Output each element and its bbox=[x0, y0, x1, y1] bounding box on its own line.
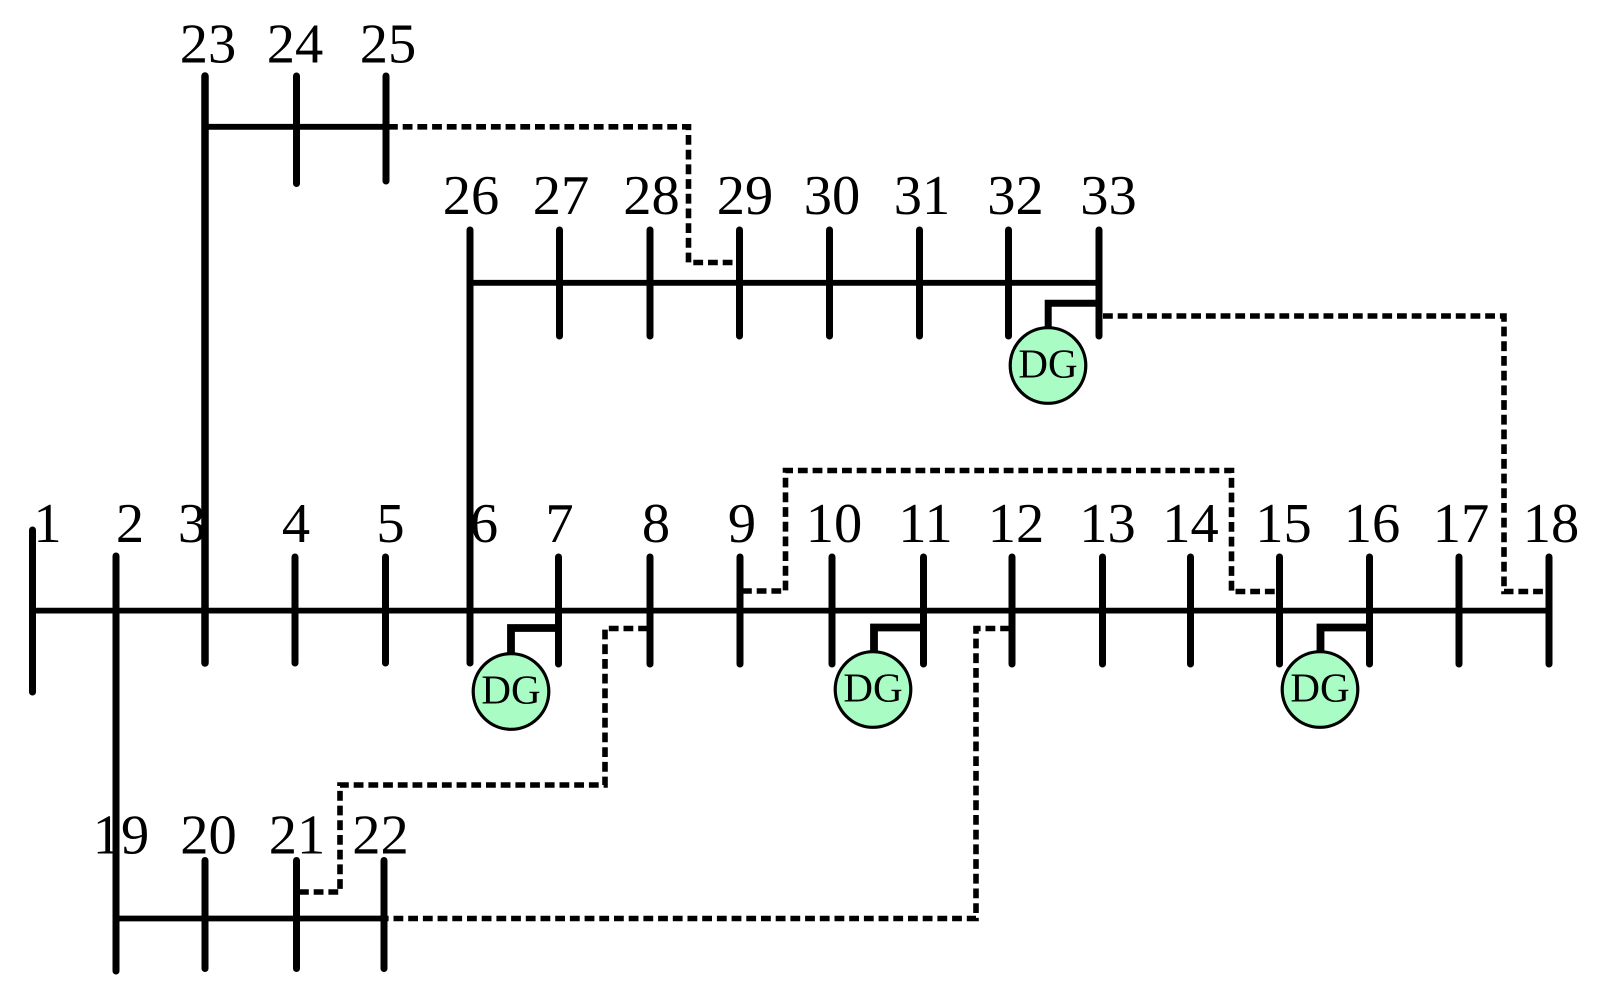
svg-text:19: 19 bbox=[93, 805, 150, 867]
svg-text:23: 23 bbox=[180, 14, 237, 76]
node bus 3 with riser to bus 23 branch bbox=[201, 76, 209, 663]
node bus 31 bbox=[916, 230, 923, 336]
node bus 32 bbox=[1005, 230, 1012, 336]
node bus 22 bbox=[381, 861, 388, 969]
node bus 33 bbox=[1096, 230, 1103, 336]
node bus 10 bbox=[829, 557, 836, 664]
node bus 25 bbox=[383, 76, 390, 181]
svg-text:16: 16 bbox=[1344, 493, 1401, 555]
svg-text:DG: DG bbox=[481, 667, 540, 713]
svg-text:12: 12 bbox=[988, 493, 1045, 555]
node bus 29 bbox=[736, 230, 743, 336]
node bus 18 bbox=[1546, 557, 1553, 664]
wire tie switch 8-21 (dashed) bbox=[299, 629, 648, 893]
node bus 17 bbox=[1456, 557, 1463, 664]
wire tie switch 9-15 (dashed) bbox=[742, 471, 1277, 592]
svg-text:14: 14 bbox=[1162, 493, 1219, 555]
svg-text:5: 5 bbox=[376, 493, 404, 555]
DG generator G4 at bus 32-33 bbox=[1010, 328, 1086, 404]
svg-text:6: 6 bbox=[470, 493, 498, 555]
svg-text:2: 2 bbox=[116, 493, 144, 555]
wire DG3 connector to bus 16 bbox=[1321, 628, 1370, 652]
node bus 28 bbox=[647, 230, 654, 336]
svg-text:31: 31 bbox=[894, 165, 951, 227]
wire DG4 connector to bus 33 bbox=[1048, 303, 1100, 328]
wire main feeder bus 1-18 bbox=[33, 608, 1550, 614]
svg-text:28: 28 bbox=[623, 165, 680, 227]
node bus 30 bbox=[826, 230, 833, 336]
wire tie switch 33-18 (dashed) bbox=[1103, 316, 1547, 592]
svg-text:27: 27 bbox=[533, 165, 590, 227]
svg-text:32: 32 bbox=[987, 165, 1044, 227]
node bus 12 bbox=[1009, 557, 1016, 664]
svg-text:11: 11 bbox=[898, 493, 952, 555]
node bus 6 with riser to bus 26 branch bbox=[467, 230, 474, 663]
svg-text:13: 13 bbox=[1079, 493, 1136, 555]
node bus 9 bbox=[737, 557, 744, 664]
svg-text:20: 20 bbox=[180, 805, 237, 867]
wire tie switch 25-29 (dashed) bbox=[388, 127, 736, 263]
svg-text:DG: DG bbox=[1018, 341, 1077, 387]
wire tie switch 12-22 (dashed) bbox=[387, 629, 1011, 919]
svg-text:4: 4 bbox=[282, 493, 310, 555]
wire branch feeder bus 26-33 bbox=[470, 280, 1099, 286]
svg-text:10: 10 bbox=[806, 493, 863, 555]
node bus 13 bbox=[1099, 557, 1106, 664]
svg-text:33: 33 bbox=[1080, 165, 1137, 227]
node bus 27 bbox=[556, 230, 563, 336]
svg-text:17: 17 bbox=[1433, 493, 1490, 555]
node bus 1 bbox=[29, 530, 36, 692]
svg-text:DG: DG bbox=[843, 665, 902, 711]
DG generator G1 at bus 6-7 bbox=[473, 654, 549, 730]
svg-text:30: 30 bbox=[804, 165, 861, 227]
node bus 21 bbox=[293, 861, 300, 969]
svg-text:7: 7 bbox=[545, 493, 573, 555]
svg-text:29: 29 bbox=[717, 165, 774, 227]
svg-text:DG: DG bbox=[1290, 665, 1349, 711]
svg-text:25: 25 bbox=[360, 14, 417, 76]
node bus 8 bbox=[647, 557, 654, 664]
node bus 16 bbox=[1366, 557, 1373, 664]
svg-text:1: 1 bbox=[33, 493, 61, 555]
svg-text:21: 21 bbox=[269, 805, 326, 867]
node bus 5 bbox=[382, 557, 389, 663]
svg-text:18: 18 bbox=[1523, 493, 1580, 555]
svg-text:9: 9 bbox=[728, 493, 756, 555]
node bus 24 bbox=[293, 76, 300, 184]
svg-text:26: 26 bbox=[443, 165, 500, 227]
node bus 7 bbox=[555, 557, 562, 664]
svg-text:24: 24 bbox=[267, 14, 324, 76]
svg-text:15: 15 bbox=[1255, 493, 1312, 555]
node bus 14 bbox=[1187, 557, 1194, 664]
DG generator G3 at bus 15-16 bbox=[1282, 652, 1358, 728]
node bus 15 bbox=[1276, 557, 1283, 664]
svg-text:3: 3 bbox=[178, 493, 206, 555]
node bus 4 bbox=[292, 557, 299, 663]
svg-text:22: 22 bbox=[352, 805, 409, 867]
node bus 2 with riser to bus 19 branch bbox=[113, 556, 120, 971]
wire branch feeder bus 23-25 bbox=[205, 124, 387, 130]
wire DG1 connector to bus 7 bbox=[511, 628, 559, 653]
wire DG2 connector to bus 11 bbox=[874, 628, 924, 652]
node bus 11 bbox=[920, 557, 927, 664]
node bus 20 bbox=[202, 861, 209, 969]
svg-text:8: 8 bbox=[642, 493, 670, 555]
DG generator G2 at bus 10-11 bbox=[835, 652, 911, 728]
wire branch feeder bus 19-22 bbox=[116, 916, 384, 922]
